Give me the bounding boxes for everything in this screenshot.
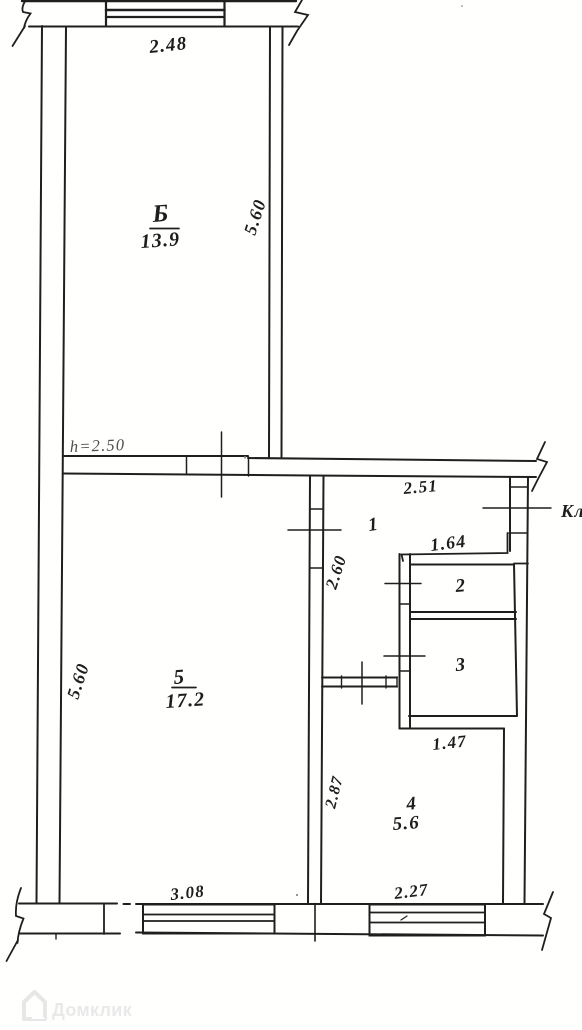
wall: corridor/room4 band bottom [322, 686, 397, 688]
window W2 small slash [401, 916, 407, 920]
svg-text:2.48: 2.48 [147, 33, 188, 58]
wall: room4 right inner line [503, 729, 504, 904]
bottom band divider x104 [103, 904, 105, 935]
wall: left inner line [60, 28, 67, 903]
door tick closet 2 [385, 583, 421, 585]
balcony left edge [105, 0, 107, 26]
wall: room B right, inner line [282, 27, 283, 457]
break mark tail top-left [13, 26, 26, 46]
svg-text:3.08: 3.08 [168, 881, 205, 904]
svg-text:Кл: Кл [560, 501, 582, 521]
band tick x248 [248, 457, 250, 476]
svg-text:5.60: 5.60 [63, 661, 93, 702]
svg-text:1: 1 [367, 514, 381, 536]
closet 2/3 divider line 1 [410, 611, 516, 613]
break mark bottom-left [16, 888, 24, 943]
wall: corridor/room5 divider left line [308, 476, 310, 903]
wall: corridor right inner line [509, 477, 511, 551]
break mark middle-right [532, 442, 547, 491]
window W2 pane line 2 [370, 922, 486, 924]
window W1 pane line 2 [143, 920, 275, 922]
svg-text:2.51: 2.51 [402, 476, 439, 498]
scan speck top [461, 5, 463, 7]
break mark top-right [289, 0, 308, 45]
window W1 frame [143, 905, 275, 934]
bottom band divider x315 [314, 904, 316, 942]
break mark bottom-right [542, 892, 553, 950]
wall: corridor/room4 band top [322, 677, 397, 679]
svg-text:Б: Б [151, 200, 171, 228]
closet wall tick y604 [400, 603, 411, 605]
wall: top inner edge (room B ceiling line) [29, 26, 298, 28]
wall: middle band top line [63, 456, 536, 461]
tick below band x56 [55, 934, 57, 940]
niche tick y533 [509, 532, 527, 534]
watermark check notch [31, 1012, 45, 1019]
divider tick y509 [310, 508, 323, 510]
closet 3 bottom line [409, 715, 517, 717]
band end cap x397 [396, 677, 398, 687]
band tick x341 [341, 676, 343, 688]
wall: corridor/room5 divider right line [321, 476, 324, 903]
band cross marker x221 [221, 432, 223, 497]
wall: bottom band top line [19, 903, 543, 906]
svg-text:1.47: 1.47 [431, 731, 468, 754]
closet 2/3 divider line 2 [410, 618, 516, 620]
door tick closet 3 [384, 655, 425, 657]
window W1 pane line 1 [143, 914, 275, 916]
svg-text:3: 3 [454, 654, 467, 676]
closet block bottom boundary [400, 728, 505, 730]
band tick x386 [385, 676, 387, 688]
closet wall tick y671 [400, 670, 410, 672]
closet 2 top line [410, 564, 514, 566]
scan speck room4 [296, 894, 298, 896]
break mark tail bottom-left [7, 940, 19, 961]
scan speck near band [244, 456, 246, 458]
svg-text:5: 5 [173, 664, 186, 689]
wall: top outer edge [22, 0, 296, 2]
svg-text:1.64: 1.64 [429, 531, 467, 555]
divider tick y568 [310, 567, 323, 569]
room label 5 underline [172, 687, 196, 689]
svg-text:h=2.50: h=2.50 [69, 435, 125, 456]
room label B underline [150, 228, 179, 230]
svg-text:5.60: 5.60 [240, 197, 270, 238]
svg-text:2: 2 [454, 575, 467, 597]
door opening tick y530 [288, 529, 341, 531]
svg-text:5.6: 5.6 [392, 812, 421, 835]
svg-text:2.27: 2.27 [392, 880, 430, 903]
wall: right outer line [525, 477, 529, 903]
wall: middle band bottom line [63, 474, 536, 478]
wall: room B right, outer line [269, 27, 270, 457]
closet block left wall inner [409, 554, 411, 729]
closet right wall [514, 564, 517, 716]
svg-text:17.2: 17.2 [165, 688, 206, 713]
svg-text:2.87: 2.87 [322, 774, 347, 811]
balcony right edge [223, 0, 225, 26]
wall: left outer line [37, 26, 43, 903]
leader line to Kl label [483, 507, 551, 509]
window W2 frame [370, 905, 486, 936]
watermark house logo [24, 992, 45, 1019]
svg-text:2.60: 2.60 [321, 552, 350, 592]
band cross marker x362 [361, 662, 363, 704]
svg-text:13.9: 13.9 [140, 228, 181, 253]
closet block left wall outer [399, 554, 401, 729]
band tick x186 [186, 456, 188, 474]
break mark top-left [22, 0, 30, 28]
dimension bracket 1.64 [402, 533, 508, 561]
balcony rail line 2 [106, 16, 225, 18]
svg-text:Домклик: Домклик [52, 1000, 133, 1020]
closet 2 top-right link [514, 563, 528, 565]
wall: bottom band bottom line [19, 933, 543, 936]
niche tick y487 [510, 486, 528, 488]
balcony rail line 1 [106, 9, 225, 12]
window W2 pane line 1 [370, 912, 486, 914]
